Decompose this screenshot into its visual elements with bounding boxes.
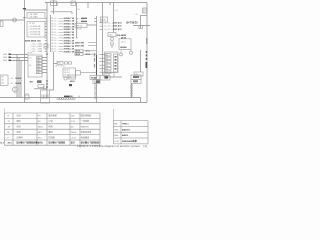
svg-text:12V: 12V <box>71 116 75 118</box>
svg-text:10 100: 10 100 <box>29 23 35 25</box>
svg-text:4B0: 4B0 <box>37 69 40 71</box>
svg-text:AT.S: AT.S <box>8 142 13 145</box>
svg-text:知分聚众飞知相知: 知分聚众飞知相知 <box>49 141 66 145</box>
svg-text:L.N: L.N <box>115 10 118 12</box>
svg-text:一体系统: 一体系统 <box>81 119 89 123</box>
svg-text:4B 08: 4B 08 <box>121 42 125 44</box>
svg-text:M: M <box>8 132 10 134</box>
svg-text:控制加油系: 控制加油系 <box>81 130 91 134</box>
svg-text:+5.12: +5.12 <box>71 137 77 139</box>
svg-text:24Vdc: 24Vdc <box>71 132 77 134</box>
svg-text:4B0/0B: 4B0/0B <box>76 28 83 30</box>
svg-text:208VAC 1B: 208VAC 1B <box>64 34 75 37</box>
svg-text:电机: 电机 <box>17 130 22 134</box>
svg-text:208VAC 1B: 208VAC 1B <box>64 48 75 51</box>
svg-text:4B08B: 4B08B <box>120 46 127 49</box>
svg-text:— 0B: — 0B <box>9 83 14 85</box>
svg-text:208V AC0: 208V AC0 <box>113 21 123 24</box>
svg-text:1B 04—: 1B 04— <box>51 32 58 34</box>
svg-text:4B08B: 4B08B <box>91 77 97 80</box>
svg-text:WMOTE: WMOTE <box>81 127 90 129</box>
svg-text:4B0: 4B0 <box>105 65 108 67</box>
svg-text:4B08: 4B08 <box>70 80 75 83</box>
svg-text:208V AC0: 208V AC0 <box>113 28 123 31</box>
svg-text:MV: MV <box>114 124 118 126</box>
svg-text:Figure 4-1 Principle diagram: Figure 4-1 Principle diagram of electric… <box>77 144 147 148</box>
svg-text:208VAC 1B: 208VAC 1B <box>64 37 75 40</box>
svg-text:4B0B: 4B0B <box>101 20 106 22</box>
svg-text:MMHRA2B知相: MMHRA2B知相 <box>122 139 137 143</box>
svg-text:FV: FV <box>38 121 41 123</box>
svg-text:1B 04—: 1B 04— <box>51 26 58 28</box>
svg-text:4B 08 0B 0A: 4B 08 0B 0A <box>55 65 65 68</box>
svg-text:208 4B0B: 208 4B0B <box>117 34 127 37</box>
svg-text:HON: HON <box>38 127 43 129</box>
svg-text:4B0: 4B0 <box>37 57 40 59</box>
svg-text:208VAC 1B: 208VAC 1B <box>64 20 75 23</box>
svg-text:1B: 1B <box>29 58 32 60</box>
svg-text:1B 04—: 1B 04— <box>51 29 58 31</box>
svg-text:输码: 输码 <box>49 130 53 134</box>
svg-text:只说: 只说 <box>49 119 53 123</box>
svg-text:XV: XV <box>71 127 74 129</box>
svg-text:N: N <box>8 116 10 118</box>
svg-text:1B 04—: 1B 04— <box>51 43 58 45</box>
svg-text:1B 04—: 1B 04— <box>51 51 58 53</box>
svg-text:建设用系统: 建设用系统 <box>81 114 91 118</box>
svg-text:L.N: L.N <box>135 14 138 16</box>
svg-text:1.7V: 1.7V <box>71 121 76 123</box>
svg-text:—B—08 —: —B—08 — <box>103 22 112 24</box>
svg-text:4B0: 4B0 <box>1 83 4 85</box>
svg-text:4B0: 4B0 <box>1 80 4 82</box>
svg-text:700s: 700s <box>114 129 118 131</box>
svg-text:1B: 1B <box>29 65 32 67</box>
svg-text:1B 04—: 1B 04— <box>51 40 58 42</box>
svg-text:PLC: PLC <box>38 137 42 139</box>
svg-text:◇ 1B 024B 0A: ◇ 1B 024B 0A <box>28 30 41 33</box>
svg-text:47.57: 47.57 <box>38 142 44 145</box>
svg-text:4B0: 4B0 <box>105 62 108 64</box>
svg-text:208VAC 1B: 208VAC 1B <box>64 45 75 48</box>
svg-text:4B0: 4B0 <box>30 81 33 84</box>
svg-text:208VAC 1B: 208VAC 1B <box>64 50 75 53</box>
svg-text:— 0B: — 0B <box>9 78 14 80</box>
svg-text:喊叫: 喊叫 <box>17 119 21 123</box>
svg-text:控制器: 控制器 <box>49 135 56 139</box>
svg-text:208VAC 1B: 208VAC 1B <box>64 23 75 26</box>
svg-text:PC: PC <box>38 116 41 118</box>
svg-text:0B0B: 0B0B <box>68 96 73 98</box>
svg-text:208VAC 1B: 208VAC 1B <box>64 39 75 42</box>
svg-text:◇ 1B 024B 0A: ◇ 1B 024B 0A <box>28 33 41 36</box>
svg-text:1B 04—: 1B 04— <box>51 18 58 20</box>
svg-text:4B0: 4B0 <box>105 69 108 71</box>
svg-text:电源模块: 电源模块 <box>81 135 89 139</box>
svg-text:4B0: 4B0 <box>37 60 40 62</box>
svg-text:208VAC 1B: 208VAC 1B <box>64 31 75 34</box>
svg-text:1B08B: 1B08B <box>15 78 22 80</box>
svg-text:1B 04—: 1B 04— <box>51 35 58 37</box>
svg-text:B4 T08 E0: B4 T08 E0 <box>127 22 139 25</box>
svg-text:4B0: 4B0 <box>37 63 40 65</box>
svg-text:+1.21: +1.21 <box>114 141 120 143</box>
svg-text:0B0: 0B0 <box>69 77 72 79</box>
svg-text:1B08B: 1B08B <box>15 83 22 85</box>
svg-text:208VAC 1B: 208VAC 1B <box>64 25 75 28</box>
svg-text:208VAC 1B: 208VAC 1B <box>64 28 75 31</box>
svg-text:4B0: 4B0 <box>37 72 40 74</box>
svg-text:0B0: 0B0 <box>135 74 138 76</box>
svg-text:4B0: 4B0 <box>105 55 108 57</box>
svg-text:4B08 08B: 4B08 08B <box>75 44 85 47</box>
svg-text:HDI: HDI <box>38 132 42 134</box>
svg-text:◇ 1B 024B 0A: ◇ 1B 024B 0A <box>28 25 41 28</box>
svg-text:4B08: 4B08 <box>76 50 81 53</box>
svg-text:◇ 1B 02AB: ◇ 1B 02AB <box>28 16 38 19</box>
svg-text:4B08 4B08 10A: 4B08 4B08 10A <box>25 39 41 42</box>
svg-text:◇ 1B 02AB: ◇ 1B 02AB <box>28 13 38 16</box>
svg-text:4B 0B 0: 4B 0B 0 <box>64 74 70 76</box>
svg-text:41.5: 41.5 <box>0 141 4 144</box>
svg-text:启停码: 启停码 <box>17 135 23 139</box>
svg-text:208VAC 1B: 208VAC 1B <box>64 17 75 20</box>
svg-text:输送系统: 输送系统 <box>49 114 57 118</box>
svg-text:LP: LP <box>72 3 75 5</box>
svg-text:208V AC0: 208V AC0 <box>113 25 123 28</box>
svg-text:帆机: 帆机 <box>49 125 54 129</box>
svg-text:0B: 0B <box>76 38 79 40</box>
svg-text:— 4B 08 —: — 4B 08 — <box>25 53 35 55</box>
svg-text:B4813/C: B4813/C <box>122 128 131 131</box>
svg-text:DMs: DMs <box>114 135 118 137</box>
svg-text:TF: TF <box>8 127 11 129</box>
svg-text:F: F <box>8 137 10 139</box>
svg-text:—B—08 —: —B—08 — <box>103 26 112 28</box>
svg-text:TRK13: TRK13 <box>122 124 129 126</box>
svg-text:—B—08 —: —B—08 — <box>103 29 112 31</box>
svg-text:1B 04—: 1B 04— <box>51 21 58 23</box>
svg-text:48B 0B: 48B 0B <box>76 26 83 28</box>
svg-text:风机: 风机 <box>17 125 22 129</box>
svg-text:B4813: B4813 <box>122 134 129 137</box>
svg-text:L.N: L.N <box>77 9 80 11</box>
svg-text:208VAC 1B: 208VAC 1B <box>64 42 75 45</box>
svg-text:4B08: 4B08 <box>86 53 91 56</box>
svg-text:1B 04—: 1B 04— <box>51 46 58 48</box>
svg-text:知分: 知分 <box>71 141 75 145</box>
svg-text:4B0: 4B0 <box>37 66 40 68</box>
svg-text:◇ 1B 024B 0A: ◇ 1B 024B 0A <box>28 28 41 31</box>
svg-text:1B 04—: 1B 04— <box>51 37 58 39</box>
svg-text:4B08: 4B08 <box>86 50 91 53</box>
svg-text:1B 04—: 1B 04— <box>51 23 58 25</box>
svg-text:4B08 08B: 4B08 08B <box>75 41 85 44</box>
svg-text:0B0: 0B0 <box>58 63 61 65</box>
svg-text:4B08: 4B08 <box>76 53 81 56</box>
svg-text:4B0: 4B0 <box>105 58 108 60</box>
svg-text:4B0: 4B0 <box>109 35 112 37</box>
svg-text:启动: 启动 <box>17 114 21 118</box>
svg-text:4B0: 4B0 <box>1 77 4 79</box>
svg-text:T1: T1 <box>8 121 11 123</box>
